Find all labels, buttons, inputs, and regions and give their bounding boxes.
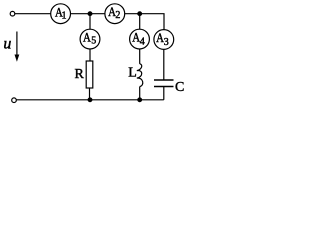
svg-text:u: u <box>3 36 11 53</box>
svg-text:4: 4 <box>140 37 145 48</box>
svg-text:L: L <box>128 66 137 81</box>
svg-text:5: 5 <box>91 35 96 46</box>
svg-text:R: R <box>75 67 85 82</box>
svg-text:1: 1 <box>62 11 67 22</box>
svg-text:A: A <box>83 31 91 45</box>
svg-text:C: C <box>175 80 184 95</box>
svg-text:2: 2 <box>115 10 120 21</box>
svg-text:3: 3 <box>164 37 169 48</box>
